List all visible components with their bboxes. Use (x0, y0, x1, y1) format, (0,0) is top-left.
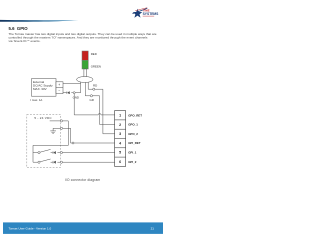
svg-text:GPI_1: GPI_1 (128, 151, 137, 155)
pin4 wire node circle (72, 142, 74, 144)
GR terminal circle (90, 95, 92, 97)
supply terminal block (56, 82, 63, 94)
svg-text:I max. 1A: I max. 1A (30, 98, 42, 102)
wire: vdc plus feed (33, 121, 68, 162)
gnd junction terminal circle (73, 92, 75, 94)
svg-text:5: 5 (119, 151, 121, 155)
lamp base ellipse (77, 77, 93, 83)
wire: supply minus to gnd junction (63, 92, 81, 94)
external supply box (32, 79, 57, 97)
lamp RED segment (82, 51, 88, 60)
wire: supply plus to lamp (63, 82, 81, 84)
wire: vdc minus feed (53, 128, 115, 143)
lamp GREEN segment (82, 60, 88, 69)
header swoosh rule (0, 20, 79, 22)
svg-text:3: 3 (119, 132, 121, 136)
wire: GR conductor (85, 82, 114, 124)
connector pin numbers (119, 114, 121, 165)
svg-text:GREEN: GREEN (91, 64, 101, 68)
svg-text:21: 21 (151, 227, 155, 231)
svg-text:4: 4 (119, 141, 121, 145)
vdc plus terminal circle (60, 120, 62, 122)
svg-text:6: 6 (119, 160, 121, 164)
wire: lamp common down (80, 82, 82, 93)
svg-text:GPI_2: GPI_2 (128, 160, 137, 164)
switch S2 (GPI_2) (33, 161, 38, 163)
svg-text:SYSTEMS: SYSTEMS (143, 12, 160, 16)
svg-text:5.6 GPIO: 5.6 GPIO (9, 26, 29, 31)
svg-text:via “Event.IO.*” events.: via “Event.IO.*” events. (9, 39, 41, 43)
footer bar (3, 222, 163, 234)
svg-text:GPO_1: GPO_1 (128, 123, 138, 127)
svg-text:5 - 24 VDC: 5 - 24 VDC (34, 116, 52, 120)
svg-text:GPO_2: GPO_2 (128, 132, 138, 136)
svg-text:Tornas User Guide - Version 1.: Tornas User Guide - Version 1.0 (9, 227, 52, 231)
wire: gnd down to pin1 with hop (74, 94, 114, 115)
svg-text:I/O connector diagram: I/O connector diagram (65, 178, 100, 182)
connector pin labels (128, 113, 142, 164)
logo star (133, 8, 148, 18)
svg-text:MAX. 30V: MAX. 30V (33, 87, 48, 91)
dashed input box (27, 115, 61, 168)
svg-text:GND: GND (73, 96, 79, 100)
svg-text:1: 1 (119, 114, 121, 118)
svg-text:GR: GR (90, 98, 94, 102)
svg-text:+: + (58, 83, 60, 87)
svg-text:2: 2 (119, 123, 121, 127)
I/O connector block (115, 111, 126, 167)
RD terminal circle (93, 88, 95, 90)
svg-text:GPI_RET: GPI_RET (128, 141, 141, 145)
vdc minus terminal circle (60, 127, 62, 129)
svg-text:RD: RD (93, 84, 97, 88)
svg-text:−: − (58, 89, 60, 93)
svg-text:RED: RED (91, 52, 97, 56)
ground symbol (50, 128, 56, 133)
plug symbol gnd wire (67, 91, 70, 94)
svg-text:GPO_RET: GPO_RET (128, 113, 142, 117)
switch S1 (GPI_1) (33, 152, 38, 154)
wire: RD conductor (88, 82, 114, 134)
lamp pole (84, 69, 87, 77)
